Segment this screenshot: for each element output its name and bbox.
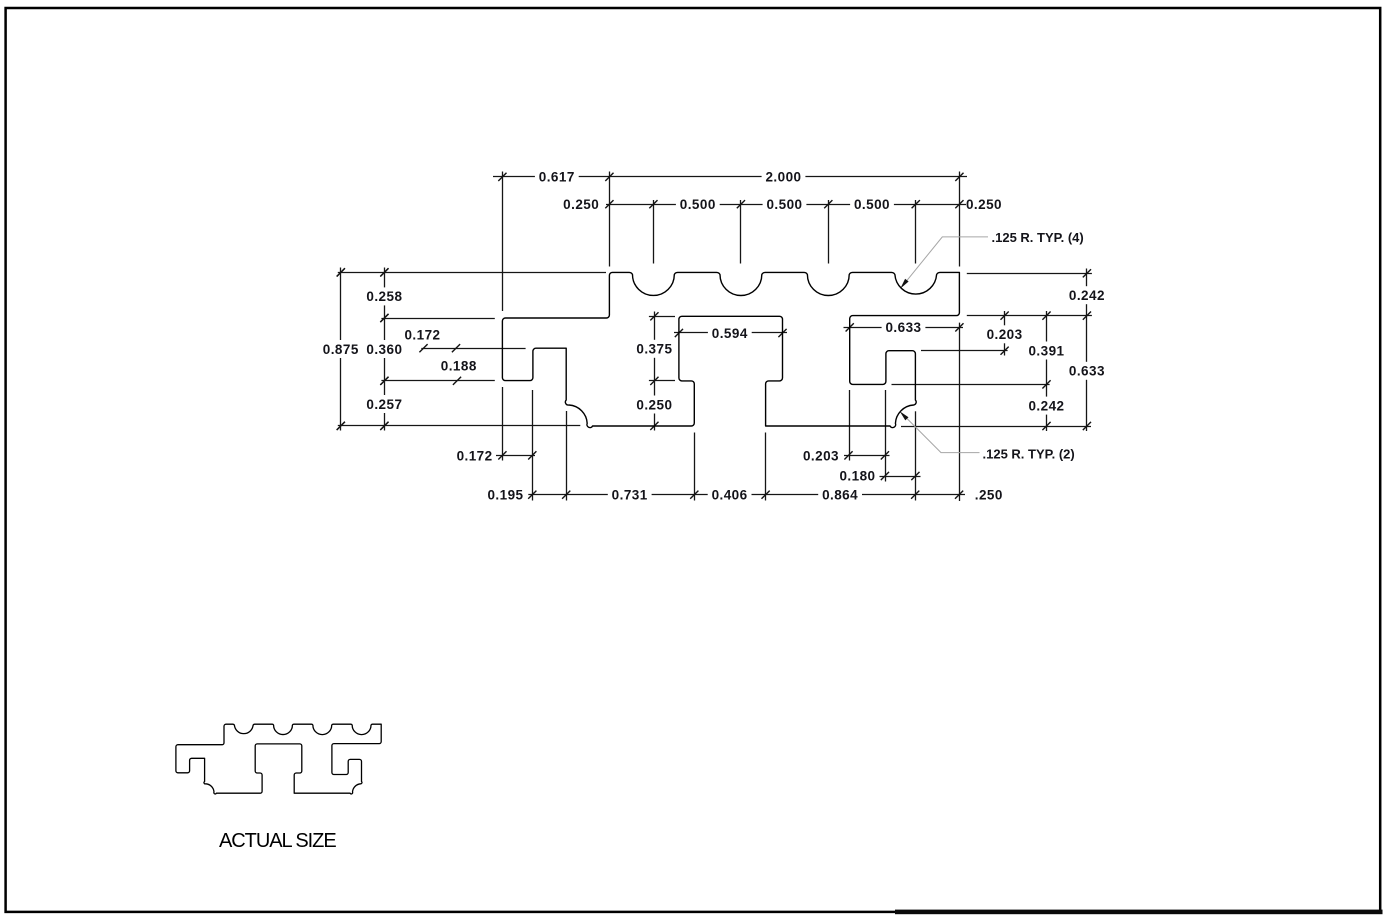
- dimension line 0.195/0.731/0.406/0.864/.250 chain: [528, 494, 965, 496]
- extension line hook right wall: [915, 411, 917, 500]
- svg-text:0.172: 0.172: [404, 328, 440, 343]
- extension line arm top edge: [381, 318, 494, 320]
- svg-text:0.500: 0.500: [680, 197, 716, 212]
- svg-text:0.250: 0.250: [636, 397, 672, 412]
- extension line slot cap top: [649, 316, 675, 318]
- extension line notch 2 center: [740, 200, 742, 264]
- svg-text:0.633: 0.633: [1069, 364, 1105, 379]
- svg-text:0.258: 0.258: [366, 289, 402, 304]
- svg-text:0.360: 0.360: [366, 342, 402, 357]
- svg-text:0.203: 0.203: [803, 448, 839, 463]
- svg-text:.250: .250: [975, 488, 1003, 503]
- extension line top edge left: [338, 272, 606, 274]
- svg-text:0.864: 0.864: [822, 488, 858, 503]
- extension line slot neck right: [765, 433, 767, 501]
- dimension line 0.203 bottom: [844, 455, 890, 457]
- extension line right edge lower: [959, 323, 961, 501]
- dimension line 0.203 vertical: [1004, 311, 1006, 356]
- extension line part left edge upper: [502, 172, 504, 312]
- extension line slot shoulder: [649, 380, 675, 382]
- extension line hook top: [921, 350, 1008, 352]
- svg-text:0.617: 0.617: [539, 170, 575, 185]
- main profile outline: [502, 272, 959, 427]
- extension line notch 3 center: [828, 200, 830, 264]
- svg-text:0.172: 0.172: [457, 448, 493, 463]
- extension line left leg wall: [566, 411, 568, 501]
- dimension line 0.172 bottom: [496, 455, 535, 457]
- extension line right edge upper: [959, 172, 961, 267]
- svg-text:0.188: 0.188: [441, 359, 477, 374]
- label background boxes: [319, 168, 1109, 504]
- dimension line 0.633 horizontal: [844, 327, 964, 329]
- svg-text:0.633: 0.633: [885, 320, 921, 335]
- dimension line 0.875 vertical: [340, 268, 342, 431]
- extension line slot neck left: [694, 433, 696, 501]
- svg-text:.125 R. TYP. (4): .125 R. TYP. (4): [992, 230, 1084, 245]
- extension line top right: [967, 273, 1092, 275]
- extension line plate left edge: [609, 172, 611, 267]
- svg-text:0.875: 0.875: [323, 342, 359, 357]
- extension line bottom right: [901, 426, 1091, 428]
- svg-text:0.242: 0.242: [1028, 398, 1064, 413]
- svg-text:0.257: 0.257: [366, 397, 402, 412]
- dimension text labels: [323, 170, 1105, 503]
- svg-text:0.250: 0.250: [563, 197, 599, 212]
- svg-text:0.195: 0.195: [487, 487, 523, 502]
- oblique tick marks: [337, 173, 1091, 499]
- svg-text:.125 R. TYP. (2): .125 R. TYP. (2): [983, 446, 1075, 461]
- svg-text:0.203: 0.203: [987, 327, 1023, 342]
- extension line notch 4 center: [915, 200, 917, 264]
- svg-text:ACTUAL SIZE: ACTUAL SIZE: [219, 830, 336, 852]
- extension line part left edge lower: [502, 387, 504, 461]
- dimension line 0.375/0.250 vertical: [654, 312, 656, 431]
- dimension line 0.258/0.360/0.257 vertical: [384, 268, 386, 431]
- dimension line 0.242/0.633 vertical: [1086, 269, 1088, 432]
- dimension line 0.250/0.500/0.500/0.500/0.250 chain: [606, 204, 966, 206]
- svg-text:0.242: 0.242: [1069, 288, 1105, 303]
- extension line notch 1 center: [653, 200, 655, 264]
- extension line right notch wall: [849, 390, 851, 461]
- dimension line 0.172 left: [421, 348, 525, 350]
- svg-text:0.500: 0.500: [854, 197, 890, 212]
- svg-text:2.000: 2.000: [765, 170, 801, 185]
- dimension line 0.594: [674, 332, 787, 334]
- extension line left notch wall: [532, 390, 534, 501]
- dimension line 0.188 / extension arm bottom: [381, 380, 494, 382]
- extension line bottom left: [338, 425, 581, 427]
- svg-text:0.250: 0.250: [966, 197, 1002, 212]
- leader for .125 R. TYP. (4): [902, 237, 988, 286]
- dimension line 0.391/0.242 vertical: [1046, 311, 1048, 431]
- page bottom edge thick segment: [895, 910, 1383, 915]
- svg-text:0.180: 0.180: [839, 469, 875, 484]
- svg-text:0.731: 0.731: [612, 488, 648, 503]
- extension line hook left wall: [885, 390, 887, 482]
- extension line right ledge: [892, 384, 1050, 386]
- extension line right arm underside: [967, 315, 1092, 317]
- actual-size profile outline: [176, 724, 381, 794]
- svg-text:0.406: 0.406: [712, 488, 748, 503]
- leader for .125 R. TYP. (2): [902, 413, 980, 453]
- svg-text:0.391: 0.391: [1028, 343, 1064, 358]
- svg-text:0.594: 0.594: [712, 326, 748, 341]
- dimension line 0.180: [880, 476, 921, 478]
- dimension line 0.617 / 2.000: [493, 176, 967, 178]
- svg-text:0.500: 0.500: [766, 197, 802, 212]
- svg-text:0.375: 0.375: [636, 342, 672, 357]
